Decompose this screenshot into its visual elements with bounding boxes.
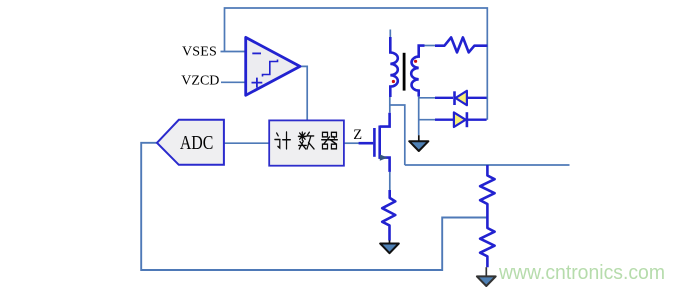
transformer primary winding L1 [390,37,398,97]
transistor Q1 source lead [380,158,390,172]
transistor Q1 gate bar [373,128,376,157]
transistor Q1 drain lead [380,113,390,127]
svg-text:www.cntronics.com: www.cntronics.com [498,261,665,284]
comparator hysteresis symbol [263,60,278,77]
comparator plus sign [252,78,263,88]
comparator minus sign [252,52,261,54]
wire source segment [389,172,391,190]
transistor Q1 gate lead [359,142,374,145]
ADC block [157,120,224,165]
transformer secondary winding L2 [411,46,424,97]
wire VZCD input [221,81,245,83]
wire VSES input [221,51,246,53]
ground G2 (source resistor) [389,240,391,243]
wire branch to diode D2 [419,119,435,121]
resistor R4 (divider lower) [480,218,495,268]
wire ADC feedback loop from divider tap [141,143,487,270]
wire top rail from VSES node to right rail down to diodes [225,8,488,120]
resistor R1 (source) [382,190,395,241]
wire comparator output to counter [300,66,308,120]
wire drain sense to mid rail [390,105,405,165]
wire drain node segment [389,97,391,113]
svg-text:ADC: ADC [180,133,214,154]
transformer core [403,53,406,91]
resistor R3 (divider upper) [480,165,495,218]
primary polarity dot [392,80,395,83]
svg-text:VSES: VSES [182,44,217,59]
transistor Q1 channel bar [378,126,381,159]
svg-text:Z: Z [353,127,362,143]
resistor R2 (top horizontal) [435,37,487,52]
diode D2 [435,118,487,120]
svg-text:VZCD: VZCD [181,74,219,89]
wire counter to gate [344,142,359,144]
wire mid rail [405,164,570,166]
diode D1 [435,97,487,99]
ground G1 (transformer) [418,135,420,141]
ground G3 (divider) [485,267,487,276]
transistor Q1 arrow [380,154,388,160]
label 计数器 (counter) drawn strokes [275,132,337,149]
wire secondary top to resistor R2 [424,45,435,47]
counter block [269,120,344,165]
wire secondary bottom to ground [418,96,420,135]
wire ADC to counter [224,142,269,144]
wire primary top stub [389,30,391,38]
op-amp comparator U1 [246,37,300,95]
secondary polarity dot [414,60,417,63]
wire branch to diode D1 [419,97,435,99]
